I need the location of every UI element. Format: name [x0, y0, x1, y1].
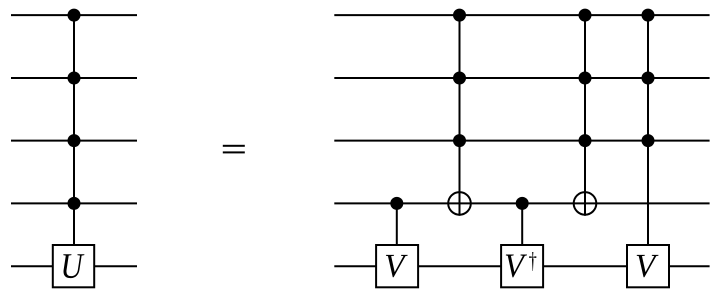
gate V box 2 — [627, 245, 669, 287]
column 2 CNOT target circle — [448, 192, 471, 215]
column 2 control line — [459, 15, 461, 216]
left circuit wire q2 — [11, 140, 137, 142]
control dot q3 — [68, 197, 81, 210]
control dot q0 — [68, 9, 81, 22]
left circuit wire q4 — [11, 265, 137, 267]
column 4 control dot q0 — [579, 9, 592, 22]
column 5 control dot q0 — [642, 9, 655, 22]
column 1 control line — [396, 203, 398, 245]
column 2 control dot q0 — [453, 9, 466, 22]
control dot q1 — [68, 72, 81, 85]
right circuit wire q1 — [334, 77, 709, 79]
column 4 control dot q2 — [579, 134, 592, 147]
column 3 control dot q3 — [516, 197, 529, 210]
right circuit wire q3 — [334, 202, 709, 204]
column 4 control line — [584, 15, 586, 216]
right circuit wire q4 — [334, 265, 709, 267]
gate V box 1 — [376, 245, 418, 287]
left circuit control line — [73, 15, 75, 245]
control dot q2 — [68, 134, 81, 147]
gate U box — [53, 245, 94, 287]
column 5 control dot q2 — [642, 134, 655, 147]
column 3 control line — [521, 203, 523, 245]
gate V label 2 — [637, 255, 659, 277]
equals sign bottom bar — [223, 151, 245, 153]
right circuit wire q0 — [334, 14, 709, 16]
column 2 control dot q1 — [453, 72, 466, 85]
left circuit wire q3 — [11, 202, 137, 204]
right circuit wire q2 — [334, 140, 709, 142]
column 5 control dot q1 — [642, 72, 655, 85]
column 2 control dot q2 — [453, 134, 466, 147]
column 5 control line — [647, 15, 649, 245]
gate U label — [63, 254, 84, 278]
left circuit wire q0 — [11, 14, 137, 16]
left circuit wire q1 — [11, 77, 137, 79]
gate V-dagger box — [501, 245, 543, 287]
column 4 CNOT target circle — [574, 192, 597, 215]
gate V label 1 — [386, 255, 408, 277]
gate V-dagger label — [506, 255, 527, 278]
equals sign top bar — [223, 145, 245, 147]
column 1 control dot q3 — [390, 197, 403, 210]
column 4 control dot q1 — [579, 72, 592, 85]
gate V-dagger superscript dagger — [529, 252, 536, 271]
